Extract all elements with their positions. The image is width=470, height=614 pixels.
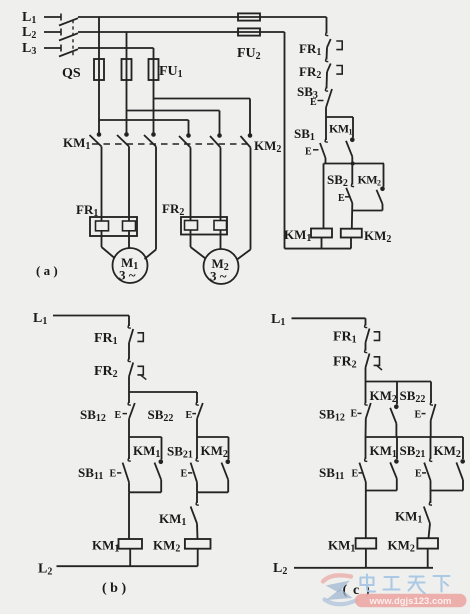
wire KM1 contact3 down xyxy=(155,147,157,250)
svg-text:( a ): ( a ) xyxy=(36,263,58,278)
wire xyxy=(196,419,198,437)
wire KM2 contact2 to FR2 xyxy=(220,148,222,221)
svg-text:QS: QS xyxy=(62,66,81,81)
node junction c right xyxy=(431,490,464,492)
stop button SB12 xyxy=(128,392,130,403)
thermal overload FR2 heater 1 xyxy=(185,221,198,231)
svg-text:E: E xyxy=(338,193,345,204)
svg-text:E: E xyxy=(415,410,422,421)
watermark band url xyxy=(355,594,467,607)
node branch junction b xyxy=(129,391,197,393)
contact KM1 aux box b xyxy=(129,436,162,438)
wire phase3 branch to KM2 xyxy=(154,98,251,100)
coil KM2 b xyxy=(185,539,211,549)
svg-text:E: E xyxy=(186,410,193,421)
thermal contact FR1 c xyxy=(365,324,368,328)
node junction xyxy=(324,163,385,165)
contact KM2 aux box xyxy=(383,164,385,187)
interlock contact KM1 b xyxy=(196,492,198,503)
stop button SB22 c xyxy=(430,382,432,404)
svg-text:E: E xyxy=(415,469,422,480)
wire to M1 right xyxy=(145,250,157,260)
wire KM2 contact3 down xyxy=(250,148,252,250)
svg-text:E: E xyxy=(305,147,312,158)
contactor KM2 main contact 2 xyxy=(217,133,222,138)
wire to coil KM1 b xyxy=(128,492,130,539)
watermark text dian gong tian xia xyxy=(361,575,450,594)
contact KM1 aux b xyxy=(159,460,164,465)
contact KM2 aux xyxy=(380,187,385,192)
wire phase1 drop xyxy=(98,17,100,133)
fuse FU2 element 2 xyxy=(238,28,260,35)
thermal overload FR1 heater 1 xyxy=(96,221,109,231)
start button SB21 c xyxy=(430,437,432,459)
wire FR1 to M1 mid xyxy=(128,231,130,249)
wire KM1 contact2 to FR1 xyxy=(128,147,130,222)
wire control phase drop xyxy=(326,17,328,34)
wire FR1 to M1 left xyxy=(101,231,103,247)
wire KM2 aux return xyxy=(352,210,382,212)
wire phase3 drop xyxy=(153,48,155,133)
contact KM2 aux c xyxy=(394,405,399,410)
wire SB2 to coil xyxy=(351,203,354,229)
wire xyxy=(128,377,130,393)
wire xyxy=(365,368,367,382)
wire xyxy=(326,72,329,89)
coil KM1 c xyxy=(356,538,377,548)
contactor KM1 main contact 1 xyxy=(97,132,102,137)
node branch junction c top xyxy=(366,381,432,383)
contact KM2 aux box b xyxy=(197,436,229,438)
node junction b right xyxy=(197,491,228,493)
interlock contact KM1 c xyxy=(430,491,432,504)
wire L1 c xyxy=(292,317,366,319)
fuse FU1 element 2 xyxy=(122,59,132,80)
contact KM2 aux far right c xyxy=(462,437,464,459)
svg-text:E: E xyxy=(181,469,188,480)
thermal overload FR2 heater 2 xyxy=(214,221,227,231)
thermal contact FR2 b xyxy=(128,358,131,362)
node branch junction c mid xyxy=(366,436,464,438)
svg-text:E: E xyxy=(310,97,317,108)
svg-text:E: E xyxy=(115,410,122,421)
switch QS pole 3 blade xyxy=(59,49,78,56)
wire to M2 right xyxy=(237,250,251,260)
fuse FU1 element 1 xyxy=(94,59,104,80)
wire xyxy=(128,419,130,437)
switch QS linkage xyxy=(72,20,74,58)
wire control return xyxy=(284,32,286,249)
wire L3 stub xyxy=(44,47,61,49)
wire L2 b xyxy=(57,565,198,567)
contact KM2 aux b xyxy=(226,460,231,465)
stop button SB3 xyxy=(325,87,328,91)
svg-text:www.dgjs123.com: www.dgjs123.com xyxy=(368,596,451,607)
contact KM1 aux xyxy=(350,138,355,143)
wire FR2 to M2 mid xyxy=(220,230,222,249)
svg-text:3 ~: 3 ~ xyxy=(119,268,136,283)
wire xyxy=(325,158,327,164)
contact KM1 aux c xyxy=(396,437,398,459)
wire xyxy=(326,48,329,60)
contact KM1 aux box xyxy=(326,116,353,118)
wire L1 b xyxy=(53,315,129,317)
wire KM2 contact1 to FR2 xyxy=(190,148,192,221)
contactor KM2 main contact 3 xyxy=(248,133,253,138)
coil KM1 xyxy=(311,229,332,238)
wire L1 bus xyxy=(78,16,327,18)
start button SB2 xyxy=(351,164,353,185)
wire KM1 contact1 to FR1 xyxy=(101,147,103,222)
thermal contact FR1 control xyxy=(326,32,329,36)
wire FR2 to M2 left xyxy=(190,230,192,247)
contactor KM2 main contact 1 xyxy=(186,133,191,138)
coil KM2 c xyxy=(417,538,438,548)
motor M1 xyxy=(113,248,148,283)
svg-text:3 ~: 3 ~ xyxy=(210,269,227,284)
start button SB21 xyxy=(196,437,198,459)
start button SB1 xyxy=(325,138,328,142)
thermal contact FR2 c xyxy=(365,349,368,353)
node junction b left xyxy=(129,491,161,493)
fuse FU2 element 1 xyxy=(238,13,260,20)
svg-text:E: E xyxy=(110,469,117,480)
wire phase2 drop xyxy=(126,32,128,133)
wire xyxy=(325,108,327,141)
wire xyxy=(365,343,367,351)
thermal overload FR2 body xyxy=(181,217,227,235)
wire xyxy=(128,343,130,360)
contactor linkage dashes xyxy=(92,143,252,145)
contactor KM1 main contact 3 xyxy=(151,132,156,137)
thermal contact FR2 control xyxy=(326,58,329,62)
thermal overload FR1 heater 2 xyxy=(123,221,136,231)
svg-text:E: E xyxy=(351,409,358,420)
wire to coil KM1 xyxy=(323,164,325,229)
stop button SB22 xyxy=(196,392,198,403)
start button SB11 c xyxy=(365,437,367,459)
wire L2 bus xyxy=(78,31,285,33)
stop button SB12 c xyxy=(365,382,367,404)
wire phase2 branch to KM2 xyxy=(127,110,220,112)
svg-text:E: E xyxy=(352,469,359,480)
thermal contact FR1 b xyxy=(128,324,131,328)
wire L2 c xyxy=(294,567,433,569)
wire L1 stub xyxy=(44,16,61,18)
wire to coil KM1 c xyxy=(365,491,367,539)
node junction c left xyxy=(366,490,397,492)
wire L3 bus xyxy=(78,47,154,49)
coil KM2 xyxy=(341,229,362,238)
fuse FU1 element 3 xyxy=(149,59,159,80)
svg-text:( b ): ( b ) xyxy=(102,581,126,596)
switch QS pole 1 blade xyxy=(59,18,78,25)
coil KM1 b xyxy=(119,539,143,549)
watermark logo xyxy=(323,575,356,604)
contactor KM1 main contact 2 xyxy=(124,132,129,137)
thermal overload FR1 body xyxy=(90,217,137,236)
wire phase1 branch to KM2 xyxy=(99,119,189,121)
wire KM2 aux feed c xyxy=(396,382,398,405)
motor M2 xyxy=(204,249,239,284)
switch QS pole 2 blade xyxy=(59,33,78,40)
wire L2 stub xyxy=(44,31,61,33)
start button SB11 xyxy=(128,437,130,459)
